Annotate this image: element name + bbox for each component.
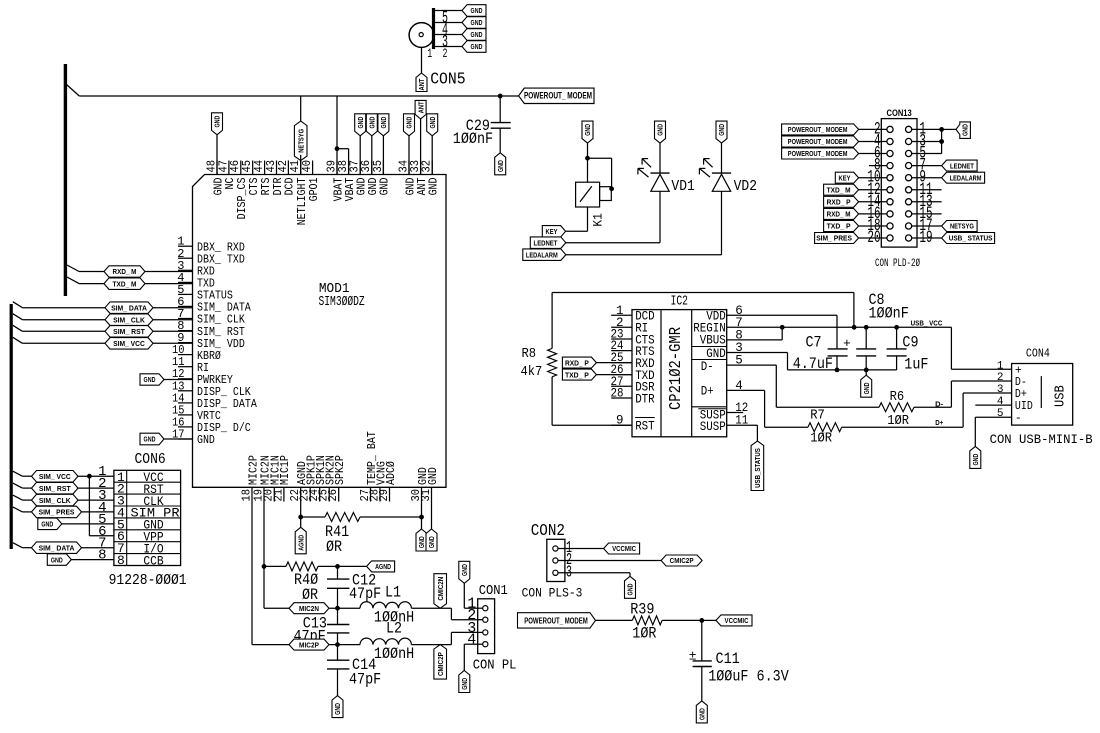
svg-text:USB_ VCC: USB_ VCC — [911, 318, 943, 327]
svg-text:29: 29 — [377, 489, 391, 502]
svg-text:KEY: KEY — [839, 173, 851, 182]
svg-text:SIM_ CLK: SIM_ CLK — [39, 496, 71, 505]
svg-text:SIM_ VCC: SIM_ VCC — [39, 472, 71, 481]
svg-text:26: 26 — [326, 489, 340, 502]
svg-text:1uF: 1uF — [904, 356, 928, 374]
svg-text:CON6: CON6 — [135, 451, 166, 468]
svg-text:35: 35 — [371, 160, 385, 173]
svg-text:4: 4 — [997, 396, 1004, 408]
svg-text:CMIC2P: CMIC2P — [436, 652, 445, 676]
svg-text:8: 8 — [98, 548, 106, 564]
svg-text:1: 1 — [997, 360, 1004, 372]
svg-text:1ØR: 1ØR — [810, 431, 832, 447]
svg-text:GND: GND — [471, 42, 483, 51]
svg-text:R7: R7 — [810, 408, 825, 424]
svg-text:K1: K1 — [591, 213, 606, 227]
svg-text:SUSP: SUSP — [700, 420, 726, 434]
svg-text:SIM_ DATA: SIM_ DATA — [197, 302, 251, 315]
svg-text:IC2: IC2 — [671, 293, 689, 309]
svg-text:VD2: VD2 — [734, 178, 757, 195]
svg-text:4.7uF: 4.7uF — [793, 355, 833, 373]
svg-text:1ØØnH: 1ØØnH — [374, 645, 414, 663]
svg-text:D-: D- — [935, 399, 943, 408]
svg-text:5: 5 — [997, 408, 1004, 420]
svg-text:SIM3ØØDZ: SIM3ØØDZ — [319, 294, 365, 310]
svg-text:1ØØuF 6.3V: 1ØØuF 6.3V — [708, 668, 789, 686]
svg-text:L1: L1 — [385, 584, 401, 602]
svg-text:SPK2P: SPK2P — [334, 455, 347, 485]
svg-text:GND: GND — [717, 123, 726, 135]
svg-text:KBRØ: KBRØ — [197, 350, 221, 363]
svg-text:CON13: CON13 — [887, 108, 912, 119]
svg-text:4k7: 4k7 — [521, 364, 543, 380]
svg-text:C7: C7 — [806, 334, 822, 352]
svg-text:21: 21 — [271, 489, 285, 502]
svg-text:C11: C11 — [716, 650, 740, 668]
svg-text:USB_STATUS: USB_STATUS — [753, 448, 762, 488]
svg-text:CON USB-MINI-B: CON USB-MINI-B — [990, 432, 1093, 447]
svg-text:SIM_ RST: SIM_ RST — [39, 484, 71, 493]
svg-text:47pF: 47pF — [349, 671, 381, 689]
svg-text:GND: GND — [706, 347, 726, 361]
svg-text:DBX_ TXD: DBX_ TXD — [197, 253, 245, 266]
svg-text:VD1: VD1 — [671, 178, 694, 195]
svg-text:D+: D+ — [701, 385, 714, 399]
svg-text:20: 20 — [867, 228, 880, 248]
svg-text:SIM_ DATA: SIM_ DATA — [39, 543, 75, 552]
svg-text:31: 31 — [419, 489, 433, 502]
svg-text:NETSYG: NETSYG — [950, 222, 974, 231]
svg-text:POWEROUT_ MODEM: POWEROUT_ MODEM — [524, 617, 588, 626]
svg-text:GND: GND — [144, 375, 156, 384]
svg-text:L2: L2 — [386, 620, 402, 638]
svg-text:ANT: ANT — [416, 101, 425, 113]
svg-text:DISP_ D/C: DISP_ D/C — [197, 422, 251, 435]
svg-text:GND: GND — [405, 116, 414, 128]
svg-text:PWRKEY: PWRKEY — [197, 374, 233, 387]
svg-text:CON1: CON1 — [479, 583, 508, 599]
svg-text:LEDALARM: LEDALARM — [526, 250, 558, 259]
svg-text:1ØØnF: 1ØØnF — [869, 305, 909, 323]
svg-text:GND: GND — [862, 382, 871, 394]
svg-text:1ØØnF: 1ØØnF — [453, 130, 493, 148]
svg-text:CMIC2N: CMIC2N — [436, 577, 445, 601]
svg-text:GND: GND — [368, 116, 377, 128]
svg-text:GND: GND — [961, 124, 970, 136]
svg-text:32: 32 — [420, 160, 434, 173]
svg-text:SIM_ VCC: SIM_ VCC — [113, 339, 145, 348]
svg-text:CON PL: CON PL — [473, 658, 517, 674]
svg-text:LEDNET: LEDNET — [950, 161, 974, 170]
svg-text:R39: R39 — [630, 601, 654, 619]
svg-text:RST: RST — [635, 420, 655, 434]
svg-text:KEY: KEY — [546, 227, 558, 236]
svg-text:GND: GND — [379, 177, 392, 195]
svg-text:GND: GND — [333, 703, 342, 715]
svg-text:USB_ STATUS: USB_ STATUS — [949, 234, 993, 243]
svg-text:GND: GND — [656, 123, 665, 135]
svg-text:2: 2 — [997, 372, 1004, 384]
svg-text:CON4: CON4 — [1026, 348, 1050, 361]
svg-text:RXD: RXD — [197, 266, 215, 279]
svg-text:AGND: AGND — [296, 534, 305, 550]
svg-text:GND: GND — [356, 116, 365, 128]
svg-text:SIM_ RST: SIM_ RST — [113, 327, 145, 336]
svg-text:AGND: AGND — [375, 562, 391, 571]
svg-text:+: + — [843, 336, 851, 351]
svg-text:R6: R6 — [890, 389, 905, 405]
svg-text:CON PLS-3: CON PLS-3 — [522, 586, 583, 601]
svg-text:ANT: ANT — [417, 78, 426, 90]
svg-text:GND: GND — [379, 116, 388, 128]
svg-text:GND: GND — [471, 30, 483, 39]
svg-text:DCD: DCD — [284, 177, 297, 195]
svg-text:RXD_ M: RXD_ M — [827, 210, 851, 219]
svg-text:1: 1 — [427, 47, 432, 61]
svg-text:POWEROUT_ MODEM: POWEROUT_ MODEM — [788, 149, 848, 158]
svg-text:LEDNET: LEDNET — [534, 238, 558, 247]
svg-text:8: 8 — [117, 553, 125, 568]
svg-text:TXD_ P: TXD_ P — [827, 222, 851, 231]
svg-text:GND: GND — [213, 115, 222, 127]
svg-text:SIM_ PRES: SIM_ PRES — [39, 508, 75, 517]
svg-text:GND: GND — [144, 435, 156, 444]
svg-text:CCB: CCB — [143, 553, 163, 568]
svg-text:GND: GND — [417, 536, 426, 548]
svg-text:D+: D+ — [1015, 388, 1027, 401]
svg-text:SIM_ CLK: SIM_ CLK — [113, 315, 145, 324]
svg-text:3: 3 — [997, 384, 1004, 396]
svg-text:SIM_ CLK: SIM_ CLK — [197, 314, 245, 327]
svg-text:-: - — [1015, 412, 1022, 425]
svg-text:D-: D- — [701, 360, 714, 374]
svg-text:GND: GND — [51, 555, 63, 564]
svg-text:GND: GND — [428, 177, 441, 195]
svg-text:28: 28 — [611, 387, 624, 401]
svg-text:DISP_ CLK: DISP_ CLK — [197, 386, 251, 399]
svg-text:GND: GND — [197, 434, 215, 447]
svg-text:CON5: CON5 — [430, 71, 465, 90]
svg-text:POWEROUT_ MODEM: POWEROUT_ MODEM — [788, 125, 848, 134]
svg-text:91228-ØØØ1: 91228-ØØØ1 — [109, 572, 187, 589]
svg-text:47pF: 47pF — [349, 585, 381, 603]
svg-text:TXD_ P: TXD_ P — [565, 370, 589, 379]
svg-text:GPO1: GPO1 — [308, 177, 321, 201]
svg-text:RXD_ M: RXD_ M — [113, 267, 137, 276]
svg-text:VBUS: VBUS — [700, 333, 726, 347]
svg-text:40: 40 — [300, 160, 314, 173]
svg-text:GND: GND — [460, 564, 469, 576]
svg-text:GND: GND — [427, 536, 436, 548]
svg-text:GND: GND — [471, 18, 483, 27]
svg-text:TXD_ M: TXD_ M — [113, 279, 137, 288]
svg-text:TXD_ M: TXD_ M — [827, 185, 851, 194]
svg-text:R8: R8 — [522, 346, 537, 362]
svg-text:USB: USB — [1053, 385, 1069, 407]
svg-text:POWEROUT_ MODEM: POWEROUT_ MODEM — [524, 90, 592, 100]
svg-text:GND: GND — [496, 160, 505, 172]
svg-text:DTR: DTR — [635, 392, 655, 406]
svg-text:LEDALARM: LEDALARM — [950, 173, 982, 182]
svg-text:VCCMIC: VCCMIC — [612, 544, 636, 553]
svg-text:C9: C9 — [902, 334, 918, 352]
svg-text:MIC2P: MIC2P — [299, 640, 319, 649]
svg-text:VCCMIC: VCCMIC — [725, 616, 749, 625]
svg-text:GND: GND — [460, 677, 469, 689]
svg-text:GND: GND — [626, 583, 635, 595]
svg-text:MIC1P: MIC1P — [279, 455, 292, 485]
svg-text:NETSYG: NETSYG — [296, 129, 305, 153]
svg-text:SIM_ PRES: SIM_ PRES — [816, 234, 852, 243]
svg-text:ØR: ØR — [302, 586, 318, 604]
svg-text:CON2: CON2 — [531, 521, 565, 540]
svg-text:19: 19 — [919, 228, 932, 248]
svg-text:D+: D+ — [935, 418, 944, 427]
svg-text:2: 2 — [443, 47, 448, 61]
svg-text:ADCØ: ADCØ — [385, 461, 398, 485]
svg-text:GND: GND — [971, 453, 980, 465]
svg-text:RXD_ P: RXD_ P — [565, 358, 589, 367]
svg-text:GND: GND — [428, 116, 437, 128]
svg-text:MIC2N: MIC2N — [299, 604, 319, 613]
svg-text:POWEROUT_ MODEM: POWEROUT_ MODEM — [788, 137, 848, 146]
svg-text:1ØR: 1ØR — [632, 625, 656, 643]
svg-text:ØR: ØR — [326, 538, 342, 556]
svg-text:GND: GND — [583, 123, 592, 135]
svg-text:4: 4 — [467, 632, 476, 649]
svg-text:RXD_ P: RXD_ P — [827, 198, 851, 207]
svg-text:UID: UID — [1015, 400, 1033, 413]
svg-text:GND: GND — [427, 467, 440, 485]
svg-text:GND: GND — [698, 708, 707, 720]
svg-text:CP21Ø2-GMR: CP21Ø2-GMR — [667, 327, 686, 410]
svg-text:CMIC2P: CMIC2P — [670, 556, 694, 565]
svg-text:CON PLD-2Ø: CON PLD-2Ø — [875, 258, 920, 270]
svg-text:SIM_ DATA: SIM_ DATA — [111, 303, 147, 312]
svg-text:±: ± — [689, 649, 697, 664]
svg-text:GND: GND — [41, 520, 53, 529]
svg-text:GND: GND — [471, 6, 483, 15]
